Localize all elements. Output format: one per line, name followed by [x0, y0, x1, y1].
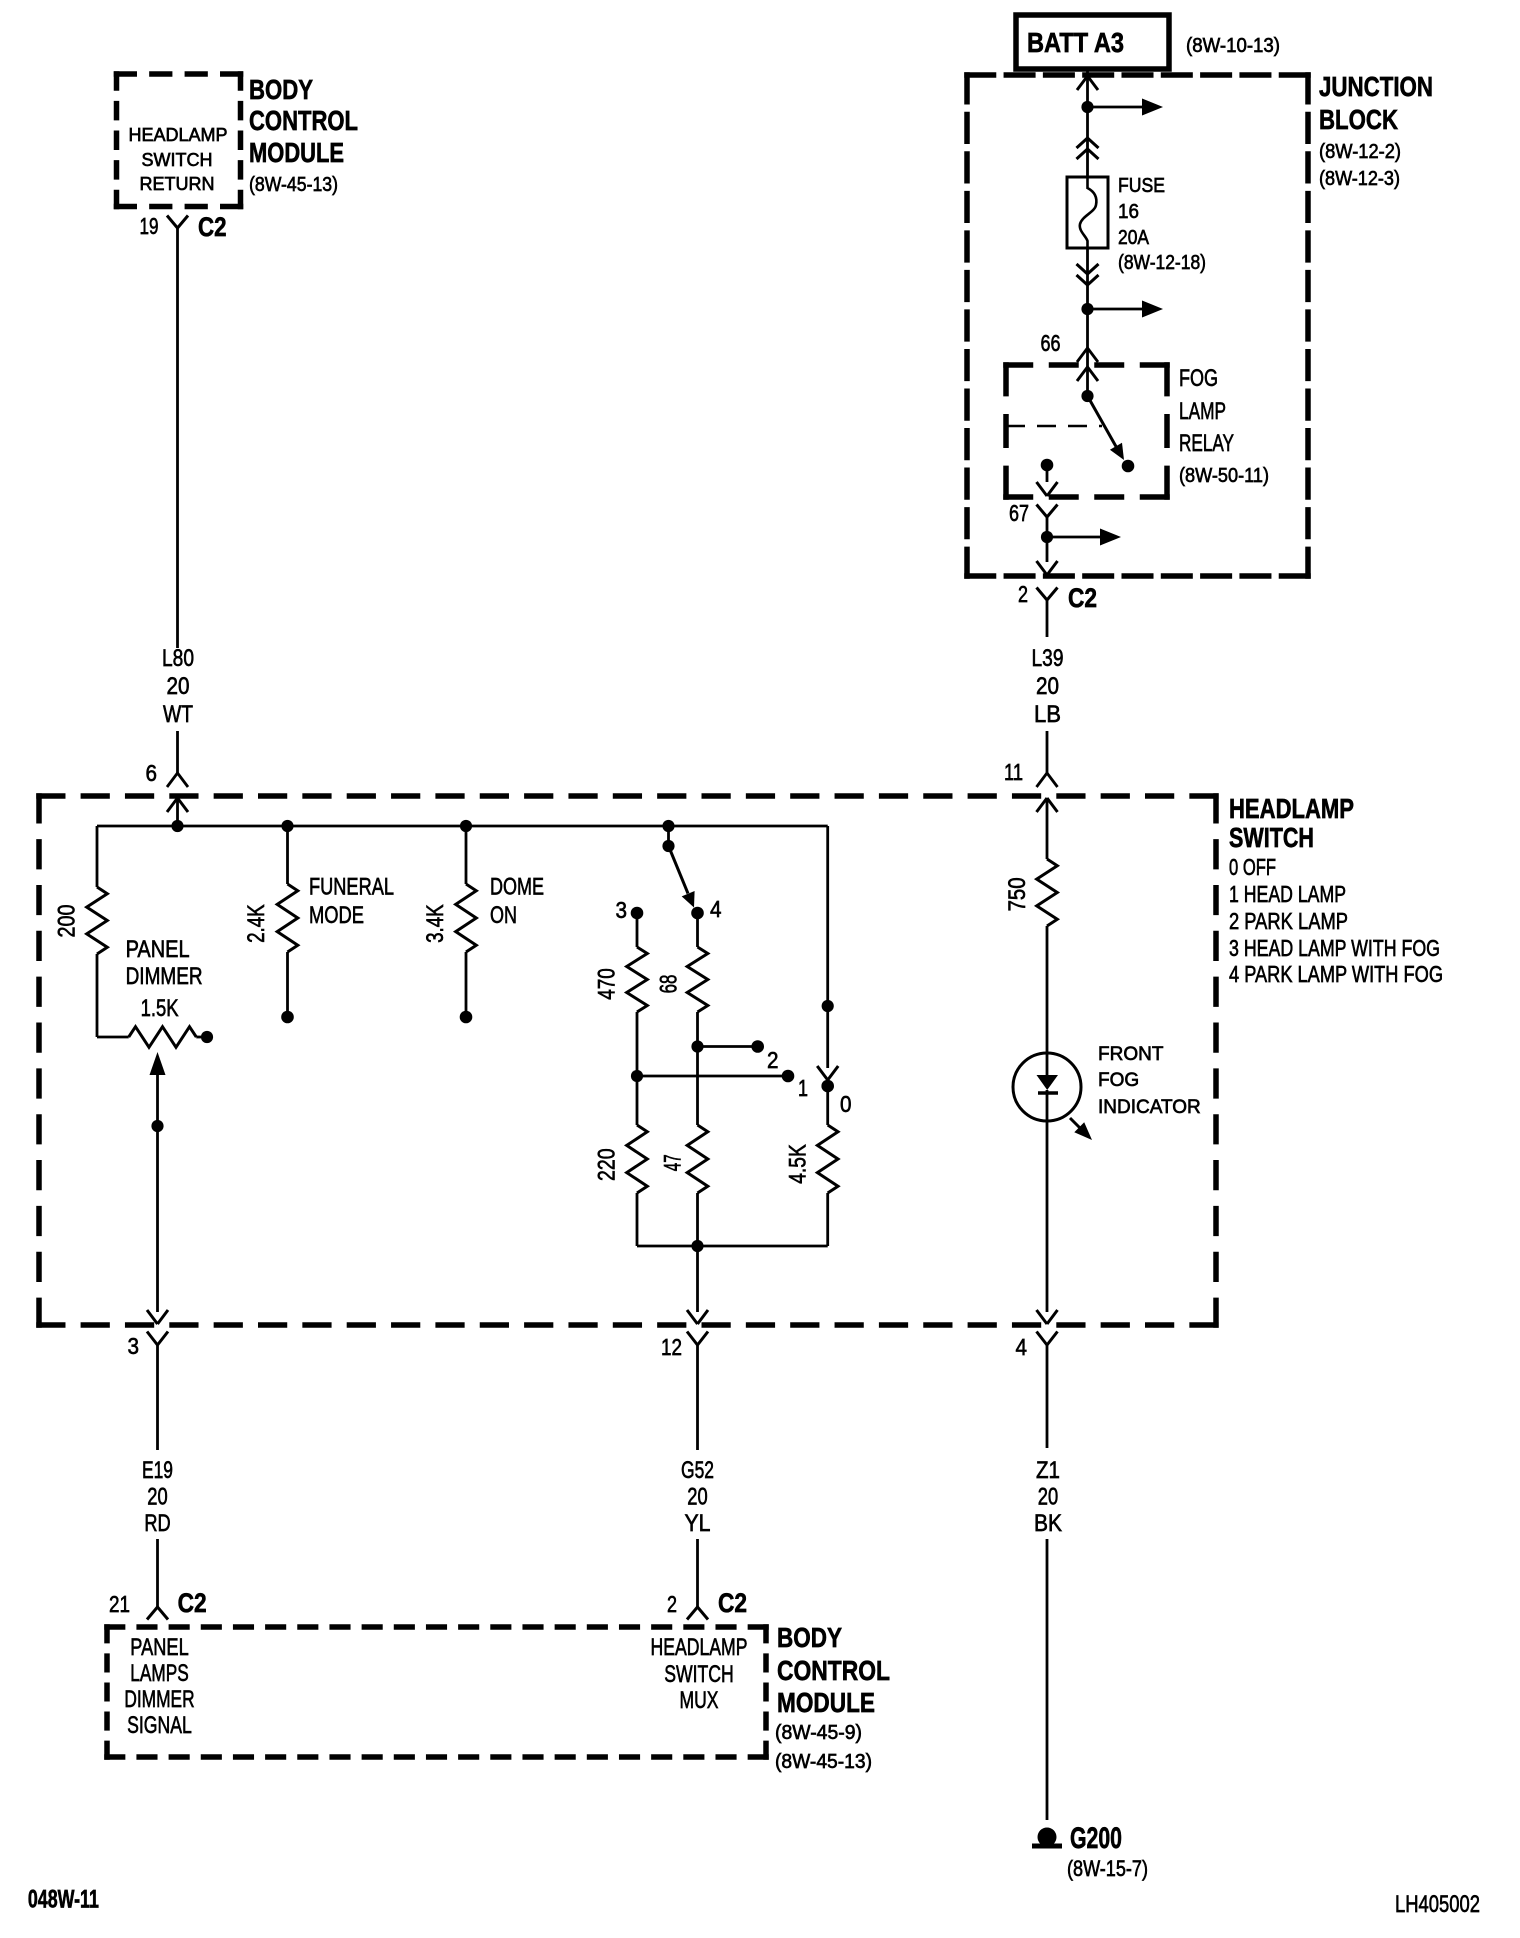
svg-text:FOG: FOG: [1179, 365, 1218, 392]
svg-text:BODY: BODY: [249, 74, 313, 105]
svg-text:HEADLAMP: HEADLAMP: [1229, 793, 1354, 824]
svg-text:DIMMER: DIMMER: [126, 963, 203, 990]
svg-text:MUX: MUX: [680, 1687, 719, 1714]
svg-text:47: 47: [659, 1154, 686, 1171]
svg-text:6: 6: [146, 760, 158, 786]
svg-text:SWITCH: SWITCH: [1229, 822, 1314, 853]
svg-text:PANEL: PANEL: [130, 1634, 188, 1661]
svg-text:20: 20: [687, 1484, 707, 1511]
svg-text:YL: YL: [685, 1510, 711, 1537]
svg-text:(8W-50-11): (8W-50-11): [1179, 465, 1269, 487]
svg-text:JUNCTION: JUNCTION: [1319, 71, 1433, 102]
svg-text:20: 20: [1038, 1484, 1058, 1511]
svg-text:4 PARK LAMP WITH FOG: 4 PARK LAMP WITH FOG: [1229, 961, 1443, 987]
svg-text:(8W-45-9): (8W-45-9): [775, 1722, 862, 1744]
svg-text:1: 1: [798, 1075, 808, 1101]
svg-text:2: 2: [767, 1047, 779, 1073]
svg-text:12: 12: [661, 1334, 682, 1360]
svg-text:RETURN: RETURN: [140, 174, 215, 194]
svg-text:4.5K: 4.5K: [785, 1144, 812, 1184]
svg-text:G52: G52: [681, 1457, 714, 1484]
svg-text:20: 20: [1036, 673, 1059, 700]
svg-text:(8W-45-13): (8W-45-13): [775, 1751, 872, 1773]
svg-text:1 HEAD LAMP: 1 HEAD LAMP: [1229, 881, 1346, 907]
svg-text:11: 11: [1004, 759, 1023, 785]
svg-text:BLOCK: BLOCK: [1319, 104, 1398, 135]
svg-text:16: 16: [1118, 201, 1139, 223]
svg-text:BODY: BODY: [777, 1622, 842, 1653]
svg-text:LAMP: LAMP: [1179, 398, 1226, 425]
svg-text:21: 21: [109, 1591, 130, 1617]
svg-text:(8W-12-18): (8W-12-18): [1118, 252, 1206, 274]
svg-text:(8W-15-7): (8W-15-7): [1067, 1856, 1148, 1881]
svg-text:2: 2: [667, 1591, 677, 1617]
svg-text:DIMMER: DIMMER: [124, 1686, 194, 1713]
svg-text:WT: WT: [163, 701, 193, 728]
svg-text:LAMPS: LAMPS: [130, 1660, 188, 1687]
svg-text:3 HEAD LAMP WITH FOG: 3 HEAD LAMP WITH FOG: [1229, 935, 1440, 961]
svg-text:FUSE: FUSE: [1118, 175, 1165, 197]
svg-text:BATT A3: BATT A3: [1027, 27, 1124, 58]
svg-text:C2: C2: [1068, 583, 1097, 613]
svg-text:66: 66: [1041, 330, 1061, 356]
svg-text:(8W-12-2): (8W-12-2): [1319, 141, 1401, 163]
svg-text:19: 19: [140, 213, 159, 239]
svg-text:(8W-45-13): (8W-45-13): [249, 174, 338, 196]
svg-text:PANEL: PANEL: [126, 936, 190, 963]
svg-text:220: 220: [594, 1148, 621, 1181]
svg-text:2 PARK LAMP: 2 PARK LAMP: [1229, 908, 1348, 934]
svg-text:(8W-12-3): (8W-12-3): [1319, 168, 1400, 190]
svg-text:LH405002: LH405002: [1395, 1891, 1480, 1918]
svg-text:BK: BK: [1034, 1510, 1062, 1537]
svg-text:4: 4: [710, 896, 722, 922]
svg-text:L80: L80: [162, 645, 194, 672]
svg-text:3: 3: [616, 897, 628, 923]
svg-text:3: 3: [128, 1333, 140, 1359]
svg-text:CONTROL: CONTROL: [249, 105, 358, 136]
svg-text:DOME: DOME: [490, 874, 544, 901]
svg-text:SWITCH: SWITCH: [142, 150, 213, 170]
svg-text:0 OFF: 0 OFF: [1229, 854, 1276, 880]
svg-text:048W-11: 048W-11: [28, 1886, 99, 1914]
svg-text:(8W-10-13): (8W-10-13): [1186, 35, 1280, 57]
svg-text:L39: L39: [1032, 645, 1064, 672]
svg-text:Z1: Z1: [1036, 1457, 1060, 1484]
svg-text:C2: C2: [178, 1588, 207, 1618]
svg-text:E19: E19: [142, 1457, 173, 1484]
svg-text:20A: 20A: [1118, 227, 1150, 249]
svg-text:FRONT: FRONT: [1098, 1044, 1164, 1065]
svg-text:2: 2: [1018, 581, 1028, 607]
svg-text:MODULE: MODULE: [249, 137, 344, 168]
svg-text:C2: C2: [718, 1588, 747, 1618]
svg-text:2.4K: 2.4K: [243, 904, 270, 943]
svg-text:200: 200: [54, 905, 81, 938]
svg-text:1.5K: 1.5K: [141, 995, 179, 1022]
svg-text:RELAY: RELAY: [1179, 430, 1234, 457]
svg-text:SWITCH: SWITCH: [664, 1661, 734, 1688]
svg-text:ON: ON: [490, 902, 517, 929]
svg-text:HEADLAMP: HEADLAMP: [651, 1634, 748, 1661]
svg-text:3.4K: 3.4K: [422, 904, 449, 943]
svg-text:20: 20: [147, 1484, 167, 1511]
svg-text:67: 67: [1009, 500, 1029, 526]
svg-text:SIGNAL: SIGNAL: [127, 1712, 192, 1739]
svg-text:MODULE: MODULE: [777, 1687, 875, 1718]
svg-text:CONTROL: CONTROL: [777, 1655, 890, 1686]
svg-text:LB: LB: [1034, 701, 1061, 728]
svg-text:RD: RD: [144, 1510, 170, 1537]
svg-text:68: 68: [655, 975, 682, 994]
svg-text:MODE: MODE: [309, 902, 364, 929]
svg-text:470: 470: [593, 968, 620, 1000]
svg-text:0: 0: [840, 1091, 852, 1117]
svg-text:750: 750: [1004, 877, 1031, 911]
svg-text:HEADLAMP: HEADLAMP: [128, 125, 227, 145]
svg-text:INDICATOR: INDICATOR: [1098, 1097, 1201, 1118]
svg-text:4: 4: [1016, 1334, 1028, 1360]
svg-text:FUNERAL: FUNERAL: [309, 874, 394, 901]
svg-text:FOG: FOG: [1098, 1070, 1139, 1091]
svg-text:20: 20: [167, 673, 190, 700]
svg-text:G200: G200: [1070, 1822, 1122, 1855]
svg-text:C2: C2: [198, 212, 227, 242]
